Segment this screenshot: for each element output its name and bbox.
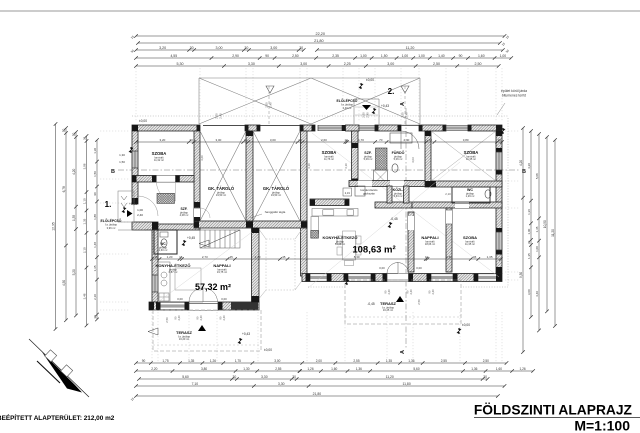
svg-text:B: B [522,169,526,175]
svg-text:2,40: 2,40 [366,112,370,118]
svg-text:KÖZL.: KÖZL. [393,187,404,192]
svg-text:30: 30 [299,46,303,50]
svg-text:2,70: 2,70 [255,255,261,259]
svg-text:SZOBA: SZOBA [322,150,337,155]
svg-text:11,20: 11,20 [406,46,415,50]
svg-text:2,50: 2,50 [433,62,440,66]
svg-text:2,40: 2,40 [387,289,391,295]
svg-text:B: B [111,169,115,175]
svg-text:1,50: 1,50 [93,171,97,177]
svg-text:2,60: 2,60 [321,138,327,142]
svg-text:SZF.: SZF. [364,151,372,155]
svg-text:1,60 m²: 1,60 m² [159,248,168,252]
svg-text:1,60: 1,60 [331,367,337,371]
svg-text:22,20: 22,20 [316,32,326,36]
svg-text:2,10: 2,10 [445,192,451,196]
svg-text:3,00: 3,00 [300,62,307,66]
svg-text:4,50: 4,50 [62,280,66,286]
svg-text:30: 30 [483,375,487,379]
svg-text:hanggátló tégla: hanggátló tégla [265,210,286,214]
svg-text:1,75: 1,75 [235,359,241,363]
svg-text:2,20: 2,20 [151,367,157,371]
svg-text:45: 45 [230,255,234,259]
svg-text:1,00: 1,00 [527,228,531,234]
svg-text:1,30: 1,30 [243,367,249,371]
svg-text:±0,00: ±0,00 [139,119,147,123]
svg-text:70: 70 [379,138,383,142]
svg-text:A: A [400,102,406,106]
svg-text:7,10: 7,10 [192,382,199,386]
svg-text:1,50: 1,50 [119,160,125,164]
svg-text:1,00: 1,00 [535,246,539,252]
svg-text:ELŐLÉPCSŐ: ELŐLÉPCSŐ [337,98,358,103]
svg-text:1,60: 1,60 [496,367,502,371]
svg-text:6,87 m²: 6,87 m² [169,270,178,274]
svg-text:±0,00: ±0,00 [264,348,272,352]
svg-text:2,10: 2,10 [93,294,97,300]
svg-text:11,76 m²: 11,76 m² [324,157,334,161]
svg-text:1,70: 1,70 [358,138,364,142]
svg-text:FÖLDSZINTI ALAPRAJZ: FÖLDSZINTI ALAPRAJZ [474,402,633,418]
svg-text:4,20: 4,20 [527,163,531,169]
svg-text:3,80: 3,80 [201,367,207,371]
svg-text:90: 90 [265,54,269,58]
svg-text:3,20: 3,20 [159,138,165,142]
svg-text:6,78: 6,78 [62,186,66,192]
svg-text:1,36: 1,36 [356,367,362,371]
svg-text:11,32 m²: 11,32 m² [154,158,164,162]
svg-text:11,35 m²: 11,35 m² [466,157,476,161]
svg-text:3,10: 3,10 [307,163,311,169]
svg-text:10: 10 [345,138,349,142]
svg-text:30: 30 [83,137,87,141]
svg-text:21,80: 21,80 [313,392,322,396]
svg-text:2,50: 2,50 [417,299,421,305]
svg-text:1,35: 1,35 [93,265,97,271]
svg-text:30: 30 [498,138,502,142]
svg-text:15: 15 [179,255,183,259]
svg-text:WC: WC [160,242,166,246]
svg-text:4,20: 4,20 [519,160,523,166]
svg-text:NAPPALI: NAPPALI [213,263,230,268]
svg-text:1,10: 1,10 [83,198,87,204]
svg-text:3,00: 3,00 [215,138,221,142]
svg-text:3,30: 3,30 [278,382,285,386]
svg-text:2,40: 2,40 [409,289,413,295]
svg-text:2,40: 2,40 [405,112,409,118]
svg-text:45: 45 [282,255,286,259]
svg-text:2,40: 2,40 [177,315,181,321]
svg-text:SZOBA: SZOBA [463,235,477,240]
svg-text:BEÉPÍTETT ALAPTERÜLET: 212,00: BEÉPÍTETT ALAPTERÜLET: 212,00 m2 [0,413,115,422]
svg-text:SZOBA: SZOBA [152,151,167,156]
svg-text:épület körül járdabitumenes te: épület körül járdabitumenes terítő [501,89,527,98]
svg-text:1,36: 1,36 [527,209,531,215]
svg-text:2,73: 2,73 [202,255,208,259]
svg-text:30: 30 [527,240,531,244]
svg-text:3,00: 3,00 [270,138,276,142]
svg-text:-0,45: -0,45 [390,217,397,221]
svg-text:KONYHA-ÉTKEZŐ: KONYHA-ÉTKEZŐ [156,263,191,268]
svg-text:50: 50 [429,138,433,142]
svg-text:2,40 m²: 2,40 m² [343,106,352,110]
svg-text:3,30: 3,30 [261,375,268,379]
svg-text:2,60: 2,60 [446,255,452,259]
svg-text:1,35: 1,35 [535,226,539,232]
svg-text:0,00: 0,00 [416,266,422,270]
svg-text:3,20: 3,20 [159,46,166,50]
svg-text:1,00: 1,00 [418,54,425,58]
svg-text:1,35: 1,35 [487,255,493,259]
svg-text:3,10: 3,10 [344,163,348,169]
svg-text:2,50: 2,50 [292,54,299,58]
svg-text:TERASZ: TERASZ [176,330,193,335]
svg-text:90: 90 [459,54,463,58]
svg-text:1,00: 1,00 [137,208,143,212]
svg-text:5,08: 5,08 [535,173,539,179]
svg-text:11,80: 11,80 [402,382,410,386]
svg-text:5,63 m²: 5,63 m² [394,194,403,198]
svg-text:±0,00: ±0,00 [366,78,374,82]
svg-text:30: 30 [244,46,248,50]
svg-text:10: 10 [425,255,429,259]
svg-text:11,20: 11,20 [386,375,394,379]
svg-text:0,00: 0,00 [221,297,227,301]
svg-text:5,09 m²: 5,09 m² [364,157,373,161]
svg-text:2,19: 2,19 [345,191,351,195]
svg-text:5,20: 5,20 [72,269,76,275]
svg-text:1,36: 1,36 [471,367,477,371]
svg-text:1,75: 1,75 [162,359,168,363]
svg-text:19,75 m²: 19,75 m² [217,270,227,274]
svg-text:1,26: 1,26 [307,367,313,371]
svg-text:1,50: 1,50 [381,54,388,58]
svg-text:NAPPALI: NAPPALI [421,235,438,240]
svg-text:30: 30 [190,138,194,142]
svg-text:1,88: 1,88 [93,214,97,220]
svg-text:2,40: 2,40 [137,213,143,217]
svg-text:2.: 2. [388,87,395,96]
svg-text:30: 30 [244,138,248,142]
svg-text:2,90: 2,90 [232,54,239,58]
svg-text:GK. TÁROLÓ: GK. TÁROLÓ [208,186,235,191]
svg-text:30: 30 [72,133,76,137]
svg-text:4,20: 4,20 [72,168,76,174]
svg-text:9,30: 9,30 [519,272,523,278]
svg-text:3,60: 3,60 [200,155,204,161]
svg-text:2,25: 2,25 [344,62,351,66]
svg-text:1,40: 1,40 [438,54,445,58]
svg-text:30: 30 [298,138,302,142]
svg-text:1,35: 1,35 [386,359,392,363]
svg-text:gázkazán: gázkazán [363,191,375,195]
svg-text:0,00: 0,00 [177,297,183,301]
svg-text:3,48: 3,48 [83,293,87,299]
svg-text:3,08: 3,08 [83,163,87,169]
svg-text:3,00: 3,00 [387,62,394,66]
svg-text:45: 45 [154,255,158,259]
svg-text:3,80: 3,80 [463,138,469,142]
svg-text:±0,00: ±0,00 [462,323,470,327]
svg-text:11,20: 11,20 [551,229,555,237]
svg-text:1,36: 1,36 [408,359,414,363]
svg-text:2,40: 2,40 [403,138,409,142]
svg-text:16,25 m²: 16,25 m² [383,308,393,312]
svg-text:1.: 1. [105,200,112,209]
svg-text:2,55: 2,55 [275,367,281,371]
svg-text:1,30: 1,30 [93,148,97,154]
svg-text:2,40: 2,40 [431,289,435,295]
svg-text:30: 30 [292,375,296,379]
svg-text:2,50: 2,50 [475,62,482,66]
svg-text:4,40: 4,40 [535,291,539,297]
svg-text:1,00: 1,00 [360,54,367,58]
svg-text:8,30: 8,30 [354,255,360,259]
svg-text:2,50: 2,50 [165,317,169,323]
svg-text:1,60: 1,60 [478,54,485,58]
svg-text:5,30: 5,30 [177,62,184,66]
svg-text:2,40: 2,40 [269,102,273,108]
svg-text:3,00: 3,00 [274,359,280,363]
svg-text:+0,03: +0,03 [129,202,137,206]
svg-text:19,50 m²: 19,50 m² [216,193,226,197]
svg-text:2,50: 2,50 [483,359,489,363]
svg-text:18,06 m²: 18,06 m² [425,242,435,246]
svg-text:2,55: 2,55 [353,359,359,363]
svg-text:3,30: 3,30 [248,62,255,66]
svg-text:2,35: 2,35 [332,54,339,58]
svg-text:M=1:100: M=1:100 [574,418,630,433]
svg-text:1,20: 1,20 [167,255,173,259]
svg-text:TERASZ: TERASZ [380,301,397,306]
svg-text:SZF.: SZF. [181,207,188,211]
svg-text:108,63 m²: 108,63 m² [352,245,395,256]
svg-text:2,55: 2,55 [441,359,447,363]
svg-text:55,06 m²: 55,06 m² [335,242,345,246]
svg-text:3,00: 3,00 [216,46,223,50]
svg-text:4,55: 4,55 [170,54,177,58]
svg-text:1,00: 1,00 [500,54,507,58]
svg-text:19,50 m²: 19,50 m² [271,193,281,197]
svg-text:SZOBA: SZOBA [464,150,479,155]
svg-text:5,60: 5,60 [413,367,419,371]
svg-text:1,30: 1,30 [119,153,125,157]
svg-text:2,40: 2,40 [199,315,203,321]
svg-text:WC: WC [467,188,473,192]
svg-text:11,35 m²: 11,35 m² [465,242,475,246]
svg-text:1,35: 1,35 [527,253,531,259]
svg-text:10,50: 10,50 [543,220,547,228]
svg-text:3,03: 3,03 [411,157,415,163]
svg-text:30: 30 [190,46,194,50]
svg-text:5,06 m²: 5,06 m² [394,157,403,161]
svg-text:FÜRDŐ: FÜRDŐ [392,150,405,155]
svg-text:+0,45: +0,45 [187,236,195,240]
svg-text:GK. TÁROLÓ: GK. TÁROLÓ [263,186,290,191]
svg-text:KONYHA-ÉTKEZŐ: KONYHA-ÉTKEZŐ [323,235,358,240]
svg-text:3,00: 3,00 [270,46,277,50]
svg-text:1,35: 1,35 [72,215,76,221]
svg-text:57,32 m²: 57,32 m² [195,282,231,292]
svg-text:5,60: 5,60 [182,375,189,379]
svg-text:1,35: 1,35 [83,218,87,224]
svg-text:90: 90 [93,192,97,196]
svg-text:45: 45 [473,255,477,259]
svg-text:30: 30 [93,315,97,319]
svg-text:1,29 m²: 1,29 m² [466,194,475,198]
svg-text:ELŐLÉPCSŐ: ELŐLÉPCSŐ [101,218,122,223]
svg-text:1,26: 1,26 [519,367,525,371]
svg-text:2,40: 2,40 [222,315,226,321]
svg-text:3,96 m²: 3,96 m² [107,226,116,230]
svg-text:0,00: 0,00 [379,266,385,270]
svg-text:21,80: 21,80 [314,39,324,43]
svg-text:12,35: 12,35 [52,222,56,231]
svg-text:30: 30 [233,375,237,379]
svg-text:1,26: 1,26 [210,359,216,363]
svg-text:2,10: 2,10 [83,247,87,253]
svg-text:+0,43: +0,43 [242,332,250,336]
svg-text:1,00: 1,00 [402,54,409,58]
svg-text:16,20 m²: 16,20 m² [179,337,189,341]
svg-text:1,48: 1,48 [93,242,97,248]
svg-text:90: 90 [142,359,146,363]
svg-text:30: 30 [62,129,66,133]
svg-text:4,08 m²: 4,08 m² [180,213,189,217]
svg-text:A: A [400,350,406,354]
svg-text:3,00: 3,00 [527,289,531,295]
svg-text:-0,45: -0,45 [367,302,374,306]
svg-text:2,00: 2,00 [316,359,322,363]
svg-text:+0,43: +0,43 [381,104,389,108]
